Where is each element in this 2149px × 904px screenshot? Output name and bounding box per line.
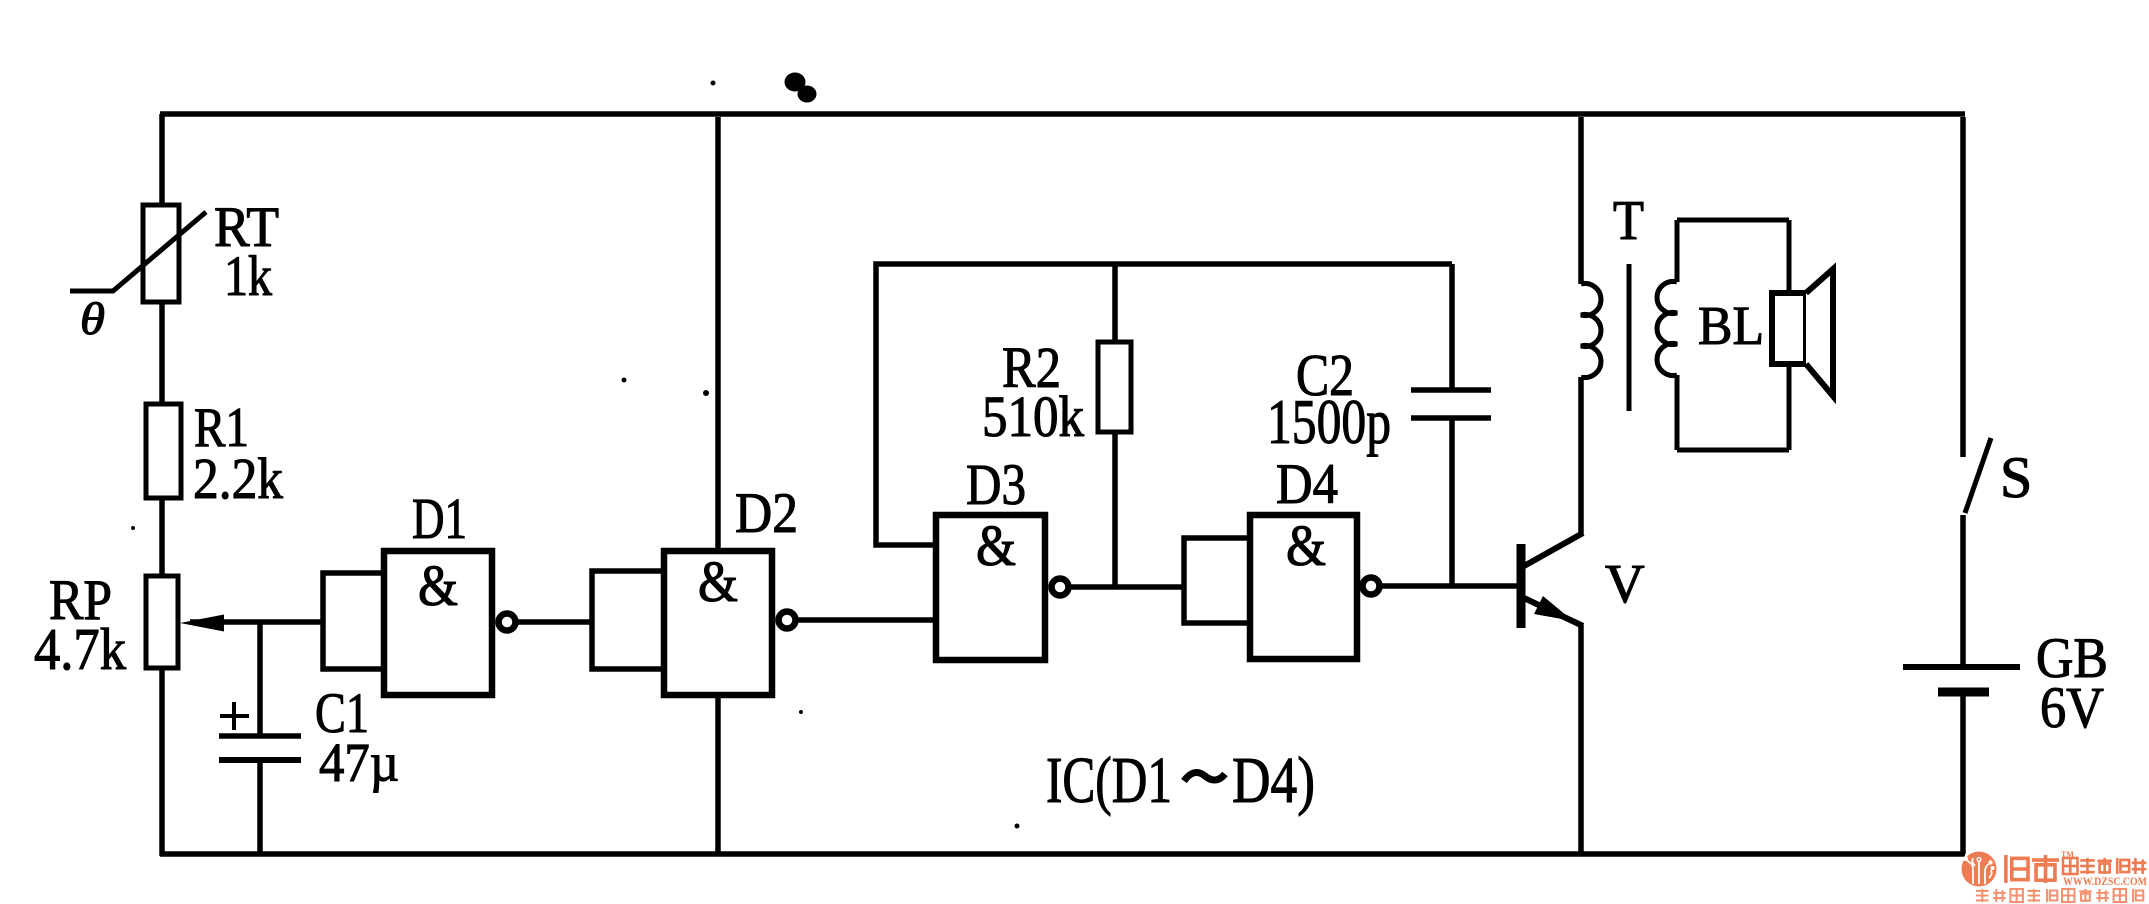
svg-text:D3: D3: [966, 452, 1026, 517]
svg-text:1500p: 1500p: [1267, 386, 1391, 457]
svg-text:D2: D2: [735, 482, 798, 545]
svg-text:510k: 510k: [982, 384, 1084, 449]
svg-text:D4: D4: [1276, 453, 1338, 516]
svg-text:&: &: [418, 553, 458, 618]
svg-text:T: T: [1613, 190, 1644, 252]
svg-text:S: S: [2000, 445, 2032, 510]
svg-text:D4): D4): [1232, 744, 1315, 817]
svg-text:BL: BL: [1698, 295, 1764, 356]
svg-text:&: &: [976, 513, 1016, 578]
svg-text:IC(D1: IC(D1: [1046, 744, 1172, 817]
svg-text:1k: 1k: [224, 245, 272, 308]
svg-text:&: &: [1286, 513, 1326, 578]
svg-text:4.7k: 4.7k: [34, 616, 126, 682]
svg-text:V: V: [1605, 553, 1645, 614]
svg-text:D1: D1: [412, 486, 467, 551]
svg-text:&: &: [698, 549, 738, 614]
svg-text:θ: θ: [80, 293, 105, 344]
svg-text:6V: 6V: [2040, 675, 2104, 740]
svg-text:WWW.DZSC.COM: WWW.DZSC.COM: [2063, 876, 2147, 888]
svg-text:47µ: 47µ: [319, 732, 399, 793]
svg-text:2.2k: 2.2k: [193, 446, 283, 511]
